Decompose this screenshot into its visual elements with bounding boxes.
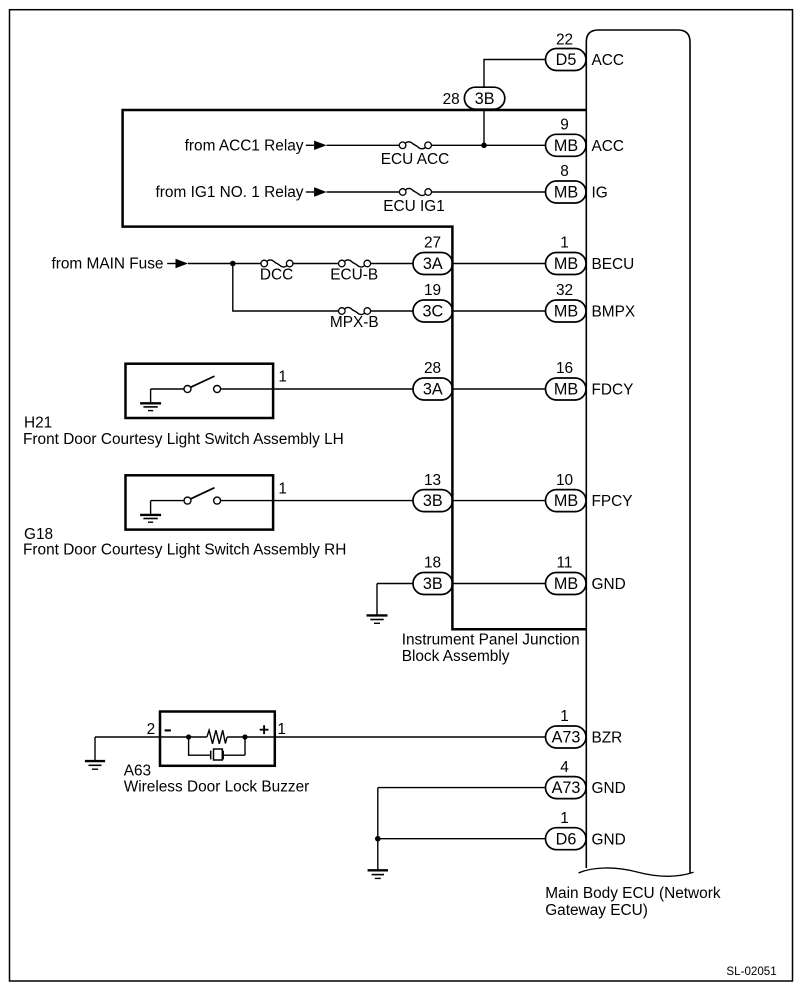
svg-text:ACC: ACC — [592, 138, 625, 155]
svg-text:from ACC1 Relay: from ACC1 Relay — [185, 137, 304, 154]
svg-text:BZR: BZR — [592, 730, 623, 747]
connector pill MB pin 9 ACC — [546, 117, 587, 157]
svg-text:Instrument Panel Junction: Instrument Panel Junction — [402, 632, 580, 649]
connector pill MB pin 32 BMPX — [546, 282, 587, 322]
svg-text:1: 1 — [560, 708, 569, 725]
connector pill 3C pin 19 — [413, 282, 453, 322]
ground bottom — [368, 870, 388, 878]
resistor zigzag in buzzer — [207, 730, 227, 744]
wire ground riser bottom — [377, 788, 379, 870]
svg-text:G18: G18 — [24, 526, 53, 543]
buzzer box A63 — [160, 712, 275, 766]
svg-text:from MAIN Fuse: from MAIN Fuse — [51, 255, 163, 272]
svg-text:8: 8 — [560, 163, 569, 180]
node B junction dot — [230, 261, 236, 267]
junction dot buzzer left — [186, 734, 191, 739]
wire DCC to ECU-B — [292, 263, 338, 265]
svg-text:3A: 3A — [423, 381, 443, 399]
svg-text:FDCY: FDCY — [592, 382, 634, 399]
svg-text:ACC: ACC — [592, 52, 625, 69]
svg-text:MB: MB — [554, 381, 578, 399]
svg-text:Block Assembly: Block Assembly — [402, 648, 510, 665]
wire MAIN fuse row — [188, 263, 261, 265]
wire ground to 3B pill 18 — [377, 583, 413, 585]
wire node B down to MPX-B row — [233, 264, 339, 312]
svg-text:2: 2 — [147, 721, 156, 738]
wire junction block to MB GND — [452, 583, 546, 585]
svg-text:A73: A73 — [552, 729, 581, 747]
svg-text:BECU: BECU — [592, 256, 635, 273]
connector pill 3B pin 18 — [413, 555, 453, 595]
svg-text:28: 28 — [424, 360, 441, 377]
svg-text:DCC: DCC — [260, 267, 293, 284]
relay box and instrument panel junction block outline — [123, 110, 587, 629]
connector pill D5 pin 22 ACC — [546, 32, 587, 71]
ground below 3B pill 18 — [367, 584, 388, 624]
arrow from ACC1 Relay — [306, 141, 327, 150]
wire ground to switch G18 — [151, 500, 184, 502]
fusible link MPX-B — [339, 307, 371, 314]
svg-text:A63: A63 — [124, 762, 151, 779]
svg-text:ECU ACC: ECU ACC — [381, 151, 449, 168]
switch H21 contacts and blade — [184, 376, 221, 392]
svg-text:BMPX: BMPX — [592, 304, 636, 321]
svg-text:MPX-B: MPX-B — [330, 314, 379, 331]
fusible link ECU ACC — [399, 142, 431, 149]
wire junction block to MB BMPX — [452, 310, 546, 312]
svg-text:22: 22 — [556, 32, 573, 49]
svg-text:SL-02051: SL-02051 — [726, 965, 776, 978]
svg-text:ECU IG1: ECU IG1 — [383, 198, 445, 215]
wire junction block to MB BECU — [452, 263, 546, 265]
svg-text:GND: GND — [592, 780, 626, 797]
svg-text:MB: MB — [554, 303, 578, 321]
svg-text:A73: A73 — [552, 779, 581, 797]
fusible link ECU IG1 — [399, 188, 431, 195]
wire D6 GND row — [378, 838, 546, 840]
svg-text:1: 1 — [560, 810, 569, 827]
wire IG row right — [431, 191, 546, 193]
wire inside buzzer right — [227, 736, 275, 738]
wire A73 GND row — [378, 787, 546, 789]
svg-text:3B: 3B — [423, 492, 443, 510]
connector pill MB pin 11 GND — [546, 555, 587, 595]
node C junction dot — [375, 836, 381, 842]
ECU torn bottom wavy edge — [579, 868, 694, 876]
wire ground to buzzer box pin 2 — [95, 736, 160, 738]
wire junction block to MB FPCY — [452, 500, 546, 502]
connector pill MB pin 16 FDCY — [546, 360, 587, 400]
svg-text:19: 19 — [424, 282, 441, 299]
connector pill 3A pin 28 — [413, 360, 453, 400]
connector pill MB pin 8 IG — [546, 163, 587, 203]
svg-text:MB: MB — [554, 255, 578, 273]
svg-text:MB: MB — [554, 137, 578, 155]
wire switch H21 to 3A pill — [221, 388, 413, 390]
wire switch G18 to 3B pill — [221, 500, 413, 502]
wire IG row left — [327, 191, 400, 193]
fusible link ECU-B — [339, 260, 371, 267]
arrow from MAIN Fuse — [167, 259, 188, 268]
svg-text:1: 1 — [278, 480, 287, 497]
svg-text:3B: 3B — [475, 90, 495, 108]
arrow from IG1 NO.1 Relay — [306, 187, 327, 196]
svg-text:Front Door Courtesy Light Swit: Front Door Courtesy Light Switch Assembl… — [23, 542, 346, 559]
svg-text:MB: MB — [554, 184, 578, 202]
svg-text:Main Body ECU (Network: Main Body ECU (Network — [545, 885, 721, 902]
svg-text:3A: 3A — [423, 255, 443, 273]
fusible link DCC — [261, 260, 293, 267]
plus sign — [260, 725, 269, 734]
svg-text:D6: D6 — [556, 830, 577, 848]
switch box H21 — [126, 364, 274, 418]
wire ACC row left — [327, 144, 400, 146]
connector pill A73 pin 4 GND — [546, 759, 587, 799]
wire junction block to MB FDCY — [452, 388, 546, 390]
svg-text:D5: D5 — [556, 51, 577, 69]
svg-text:1: 1 — [560, 235, 569, 252]
svg-text:18: 18 — [424, 555, 441, 572]
svg-text:28: 28 — [443, 91, 460, 108]
ground at buzzer A63 — [85, 737, 105, 769]
ground in switch H21 — [140, 389, 161, 411]
svg-text:GND: GND — [592, 831, 626, 848]
svg-text:Gateway ECU): Gateway ECU) — [545, 902, 648, 919]
connector pill 3B pin 13 — [413, 472, 453, 512]
wire ground to switch H21 — [151, 388, 184, 390]
wire D5 to node A — [484, 60, 546, 146]
wire MPX-B to 3C pill — [370, 310, 413, 312]
connector pill D6 pin 1 GND — [546, 810, 587, 850]
svg-text:1: 1 — [278, 369, 287, 386]
wire ECU-B to 3A pill — [370, 263, 413, 265]
svg-text:4: 4 — [560, 759, 569, 776]
wire buzzer to A73 pill BZR — [275, 736, 546, 738]
svg-text:3C: 3C — [422, 303, 443, 321]
piezo element branch — [189, 737, 245, 760]
connector pill MB pin 10 FPCY — [546, 472, 587, 512]
svg-text:Wireless Door Lock Buzzer: Wireless Door Lock Buzzer — [124, 779, 310, 796]
svg-text:MB: MB — [554, 492, 578, 510]
svg-text:3B: 3B — [423, 575, 443, 593]
minus sign — [165, 729, 171, 731]
connector pill A73 pin 1 BZR — [546, 708, 587, 748]
switch G18 contacts and blade — [184, 488, 221, 504]
svg-text:32: 32 — [556, 282, 573, 299]
svg-text:11: 11 — [557, 555, 573, 572]
junction dot buzzer right — [242, 734, 247, 739]
node A junction dot — [481, 143, 487, 149]
svg-text:9: 9 — [560, 117, 569, 134]
svg-text:MB: MB — [554, 575, 578, 593]
svg-text:from IG1 NO. 1 Relay: from IG1 NO. 1 Relay — [156, 184, 304, 201]
svg-text:1: 1 — [277, 721, 286, 738]
svg-text:H21: H21 — [24, 415, 52, 432]
svg-text:FPCY: FPCY — [592, 493, 633, 510]
svg-text:27: 27 — [424, 235, 441, 252]
svg-text:GND: GND — [592, 576, 626, 593]
connector pill 3A pin 27 — [413, 235, 453, 275]
ground in switch G18 — [140, 501, 161, 523]
wire ACC row right — [431, 144, 546, 146]
svg-text:IG: IG — [592, 185, 608, 202]
connector pill MB pin 1 BECU — [546, 235, 587, 275]
svg-text:16: 16 — [556, 360, 573, 377]
svg-text:Front Door Courtesy Light Swit: Front Door Courtesy Light Switch Assembl… — [23, 431, 344, 448]
switch box G18 — [126, 475, 274, 529]
connector pill 3B pin 28 (instrument panel) — [443, 87, 505, 109]
ECU box outline — [586, 30, 690, 874]
svg-text:10: 10 — [556, 472, 573, 489]
svg-text:13: 13 — [424, 472, 441, 489]
wire inside buzzer left — [160, 736, 207, 738]
svg-text:ECU-B: ECU-B — [330, 267, 378, 284]
